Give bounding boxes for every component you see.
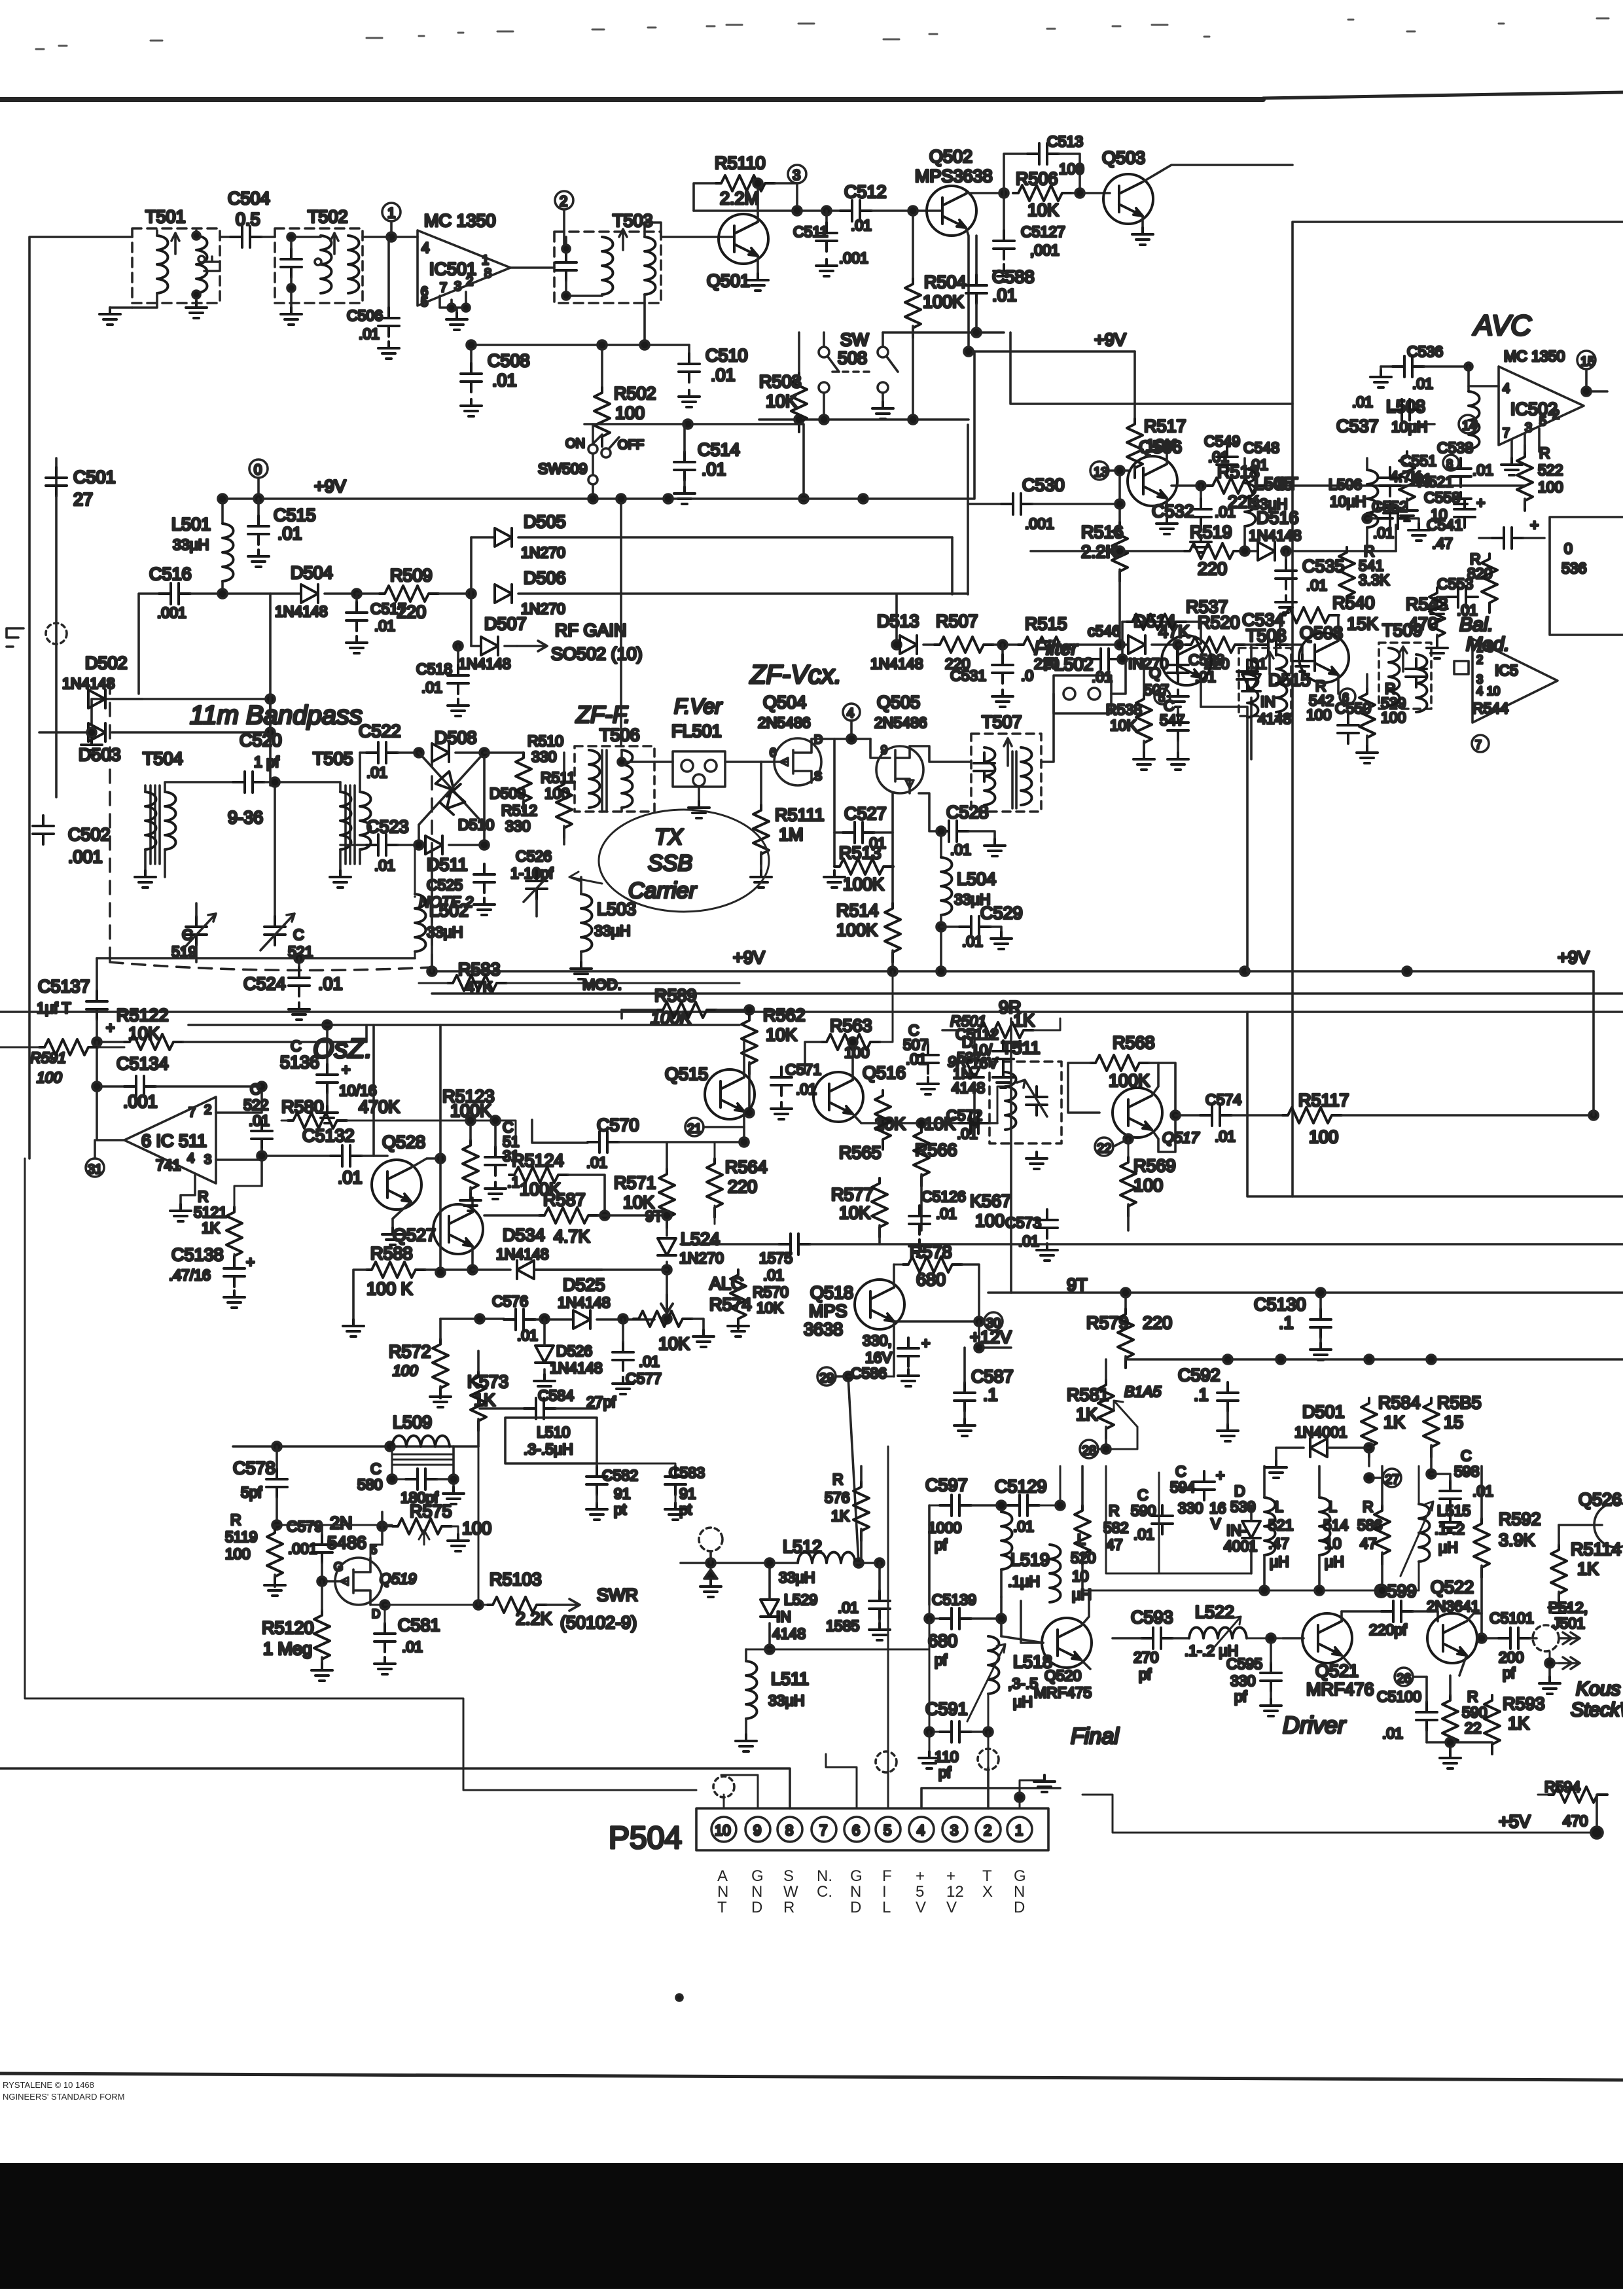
svg-text:.01: .01 — [402, 1638, 423, 1655]
scan specks top — [36, 18, 1609, 49]
svg-text:100: 100 — [1306, 706, 1331, 723]
svg-text:10: 10 — [1431, 506, 1448, 523]
svg-text:C592: C592 — [1178, 1365, 1221, 1385]
inductor L502 — [414, 845, 416, 897]
svg-text:T502: T502 — [308, 207, 348, 226]
svg-text:C514: C514 — [698, 440, 740, 459]
svg-text:2: 2 — [204, 1103, 211, 1117]
svg-text:C571: C571 — [785, 1061, 821, 1078]
svg-text:.47/16: .47/16 — [169, 1266, 211, 1283]
svg-text:.01: .01 — [936, 1205, 957, 1222]
svg-text:C531: C531 — [950, 667, 986, 684]
svg-text:4: 4 — [847, 706, 854, 721]
svg-text:R5122: R5122 — [116, 1005, 169, 1025]
svg-text:10K: 10K — [766, 391, 797, 411]
svg-text:SO502 (10): SO502 (10) — [551, 644, 643, 664]
svg-text:pf: pf — [935, 1651, 948, 1668]
svg-text:T507: T507 — [982, 712, 1022, 732]
capacitor C504 — [220, 236, 230, 238]
svg-text:Q504: Q504 — [763, 692, 806, 712]
transistor Q506 — [1090, 461, 1109, 480]
svg-text:C5129: C5129 — [995, 1477, 1047, 1496]
svg-text:1: 1 — [482, 253, 489, 268]
diode D506 — [495, 584, 512, 603]
svg-text:10K: 10K — [839, 1203, 870, 1223]
ground IC501 — [446, 313, 467, 330]
svg-text:N: N — [1014, 1883, 1025, 1901]
svg-text:C535: C535 — [1302, 556, 1345, 576]
svg-text:5: 5 — [883, 1822, 891, 1839]
wire C516 row — [139, 594, 159, 694]
svg-text:220: 220 — [1143, 1313, 1172, 1333]
svg-text:33μH: 33μH — [594, 922, 630, 939]
svg-text:.01: .01 — [277, 524, 302, 543]
svg-text:10μH: 10μH — [1330, 493, 1366, 510]
svg-text:.01: .01 — [1472, 1482, 1493, 1499]
svg-text:10K: 10K — [1027, 200, 1059, 220]
svg-text:+: + — [1016, 1036, 1024, 1053]
svg-text:C587: C587 — [971, 1367, 1014, 1386]
svg-text:R580: R580 — [281, 1097, 324, 1117]
left border wires — [25, 1158, 463, 1698]
wire C5134 to pin2 — [216, 1086, 262, 1113]
svg-text:.01: .01 — [957, 1125, 978, 1142]
svg-text:R502: R502 — [614, 384, 656, 403]
svg-text:C597: C597 — [925, 1475, 968, 1495]
node 6 — [1340, 689, 1355, 704]
svg-text:14: 14 — [1462, 419, 1476, 433]
svg-text:4: 4 — [421, 240, 429, 256]
svg-text:MPS3638: MPS3638 — [915, 166, 993, 186]
svg-text:27: 27 — [1385, 1473, 1399, 1487]
inductor L508 — [1465, 363, 1472, 370]
svg-text:5136: 5136 — [280, 1052, 319, 1072]
svg-text:D502: D502 — [85, 653, 128, 673]
svg-text:C501: C501 — [73, 467, 116, 487]
op-amp IC511 — [124, 1097, 216, 1183]
resistor R522 — [1517, 452, 1533, 511]
svg-text:A: A — [717, 1867, 728, 1885]
capacitor C510 — [688, 345, 690, 353]
diode D504 — [301, 584, 318, 603]
capacitor C524 — [298, 958, 300, 967]
capacitor C533 — [1173, 640, 1183, 649]
svg-text:330,: 330, — [863, 1332, 892, 1349]
long verticals mid page — [1247, 716, 1623, 1196]
inductor L503 — [581, 894, 592, 952]
svg-text:R5103: R5103 — [490, 1570, 542, 1589]
svg-text:31: 31 — [88, 1162, 102, 1177]
svg-text:8: 8 — [484, 266, 491, 281]
svg-text:3: 3 — [204, 1153, 211, 1167]
svg-text:27: 27 — [73, 490, 93, 509]
node 30 — [894, 1320, 984, 1323]
svg-text:D501: D501 — [1302, 1402, 1345, 1422]
svg-text:1N4148: 1N4148 — [1249, 527, 1302, 544]
svg-text:μH: μH — [1438, 1539, 1458, 1556]
op-amp IC502 — [1469, 348, 1584, 458]
svg-text:.01: .01 — [517, 1327, 538, 1344]
svg-text:.01: .01 — [992, 285, 1017, 305]
svg-text:SWR: SWR — [597, 1585, 638, 1605]
node 5 — [1154, 689, 1170, 704]
svg-text:3: 3 — [950, 1822, 958, 1839]
svg-text:SSB: SSB — [648, 851, 692, 876]
svg-text:R584: R584 — [1378, 1393, 1421, 1412]
svg-text:10K: 10K — [658, 1334, 690, 1354]
svg-text:c546: c546 — [1088, 622, 1120, 639]
svg-text:28: 28 — [1082, 1444, 1096, 1458]
svg-text:D504: D504 — [291, 563, 333, 583]
svg-text:C5112: C5112 — [955, 1026, 999, 1043]
svg-text:C.: C. — [817, 1883, 832, 1901]
svg-text:1 Meg: 1 Meg — [263, 1639, 312, 1659]
wire y1464 — [97, 957, 415, 960]
svg-text:S: S — [814, 770, 822, 783]
pin 7 — [811, 1817, 836, 1842]
svg-text:Q517: Q517 — [1162, 1129, 1200, 1146]
svg-text:+: + — [916, 1867, 925, 1885]
svg-text:R564: R564 — [725, 1157, 768, 1177]
svg-text:5119: 5119 — [225, 1528, 257, 1545]
svg-text:9R: 9R — [948, 1053, 967, 1070]
capacitor C527 — [834, 739, 843, 833]
svg-text:4: 4 — [1503, 382, 1510, 396]
+9V bus — [223, 351, 974, 499]
capacitor C534 — [1257, 634, 1288, 655]
diode D516 — [1258, 542, 1275, 560]
svg-text:+9V: +9V — [1094, 330, 1126, 350]
svg-text:100: 100 — [225, 1545, 250, 1562]
svg-text:L508: L508 — [1386, 397, 1425, 416]
svg-text:.001: .001 — [288, 1540, 317, 1557]
svg-text:508: 508 — [838, 348, 867, 368]
ground IC502 pin — [1501, 458, 1522, 475]
svg-text:C5134: C5134 — [116, 1054, 169, 1073]
svg-text:C530: C530 — [1022, 475, 1065, 495]
svg-text:B1A5: B1A5 — [1124, 1383, 1161, 1400]
svg-text:C522: C522 — [359, 721, 401, 741]
svg-text:R5114: R5114 — [1571, 1539, 1622, 1559]
svg-text:8: 8 — [785, 1822, 793, 1839]
svg-text:TX: TX — [654, 825, 684, 850]
svg-text:R565: R565 — [839, 1143, 882, 1162]
svg-text:C526: C526 — [516, 848, 552, 865]
svg-text:R592: R592 — [1499, 1509, 1541, 1529]
vertical right of D505 — [951, 537, 954, 594]
resistor R509 — [357, 592, 380, 595]
svg-text:22: 22 — [1465, 1719, 1482, 1736]
resistor R502 — [601, 345, 603, 387]
svg-text:1N4148: 1N4148 — [496, 1246, 549, 1263]
svg-text:1N270: 1N270 — [521, 600, 565, 617]
resistor R516 — [1118, 471, 1121, 522]
svg-text:10K: 10K — [757, 1299, 784, 1316]
svg-text:100: 100 — [1309, 1127, 1338, 1147]
op-amp IC501 — [418, 211, 510, 313]
svg-text:R503: R503 — [759, 372, 802, 391]
svg-text:.01: .01 — [702, 459, 726, 479]
svg-text:D505: D505 — [524, 512, 566, 531]
svg-text:D: D — [751, 1899, 762, 1916]
svg-text:C5126: C5126 — [921, 1188, 966, 1205]
svg-text:1μf T: 1μf T — [37, 999, 71, 1016]
svg-text:L509: L509 — [393, 1412, 432, 1432]
svg-text:C5132: C5132 — [302, 1126, 355, 1145]
svg-text:.01: .01 — [1215, 503, 1236, 520]
svg-text:16: 16 — [1209, 1499, 1226, 1516]
svg-text:Q506: Q506 — [1139, 437, 1182, 457]
svg-text:pf: pf — [938, 1764, 952, 1781]
svg-text:4148: 4148 — [952, 1079, 985, 1096]
svg-text:.001: .001 — [68, 847, 103, 867]
svg-text:R5B5: R5B5 — [1437, 1393, 1482, 1412]
svg-text:.01: .01 — [1306, 577, 1327, 594]
svg-text:C: C — [1175, 1463, 1186, 1480]
svg-text:11m Bandpass: 11m Bandpass — [190, 701, 363, 730]
svg-text:+: + — [246, 1253, 255, 1270]
capacitor C513 — [1004, 154, 1027, 193]
svg-text:330: 330 — [531, 748, 556, 765]
ground D503 — [81, 738, 102, 755]
node 8 — [1443, 455, 1459, 471]
svg-text:.1: .1 — [507, 1174, 520, 1191]
bias bus y2077 — [1126, 1358, 1623, 1361]
svg-text:Q526: Q526 — [1578, 1490, 1622, 1509]
pin 4 — [909, 1817, 934, 1842]
svg-text:Q502: Q502 — [929, 147, 972, 166]
svg-text:R544: R544 — [1472, 700, 1508, 717]
svg-text:RF GAIN: RF GAIN — [555, 620, 627, 640]
svg-text:270: 270 — [1133, 1649, 1158, 1666]
svg-text:.01: .01 — [338, 1168, 363, 1187]
svg-text:R513: R513 — [839, 843, 882, 863]
svg-text:1: 1 — [1015, 1822, 1023, 1839]
svg-text:C550: C550 — [1335, 700, 1371, 717]
node 4 — [843, 704, 860, 721]
svg-text:1N4148: 1N4148 — [870, 655, 923, 672]
svg-text:IC5: IC5 — [1495, 662, 1518, 679]
svg-text:D508: D508 — [435, 728, 477, 747]
svg-text:C511: C511 — [793, 223, 828, 240]
ground T502 — [281, 308, 302, 325]
svg-text:33μH: 33μH — [768, 1692, 804, 1709]
resistor R520 — [1178, 643, 1186, 646]
svg-text:R574: R574 — [709, 1295, 752, 1314]
svg-text:8: 8 — [1446, 457, 1453, 471]
svg-text:R507: R507 — [936, 611, 978, 631]
svg-text:6 IC 511: 6 IC 511 — [141, 1131, 207, 1151]
node 2 — [555, 191, 573, 209]
bottom rule line — [0, 2073, 1623, 2080]
row D513 — [897, 594, 900, 645]
capacitor C515 — [257, 499, 260, 516]
row R519/D516 — [1031, 550, 1185, 552]
wire T502 to IC501 — [363, 236, 418, 238]
svg-text:.01: .01 — [374, 857, 395, 874]
capacitor C519 variable — [186, 916, 207, 945]
svg-text:MPS: MPS — [809, 1301, 847, 1321]
svg-text:100K: 100K — [836, 920, 878, 940]
wire 1566 — [188, 1024, 740, 1026]
svg-text:N: N — [751, 1883, 762, 1901]
svg-text:R: R — [1109, 1502, 1120, 1519]
svg-text:I: I — [882, 1883, 887, 1901]
svg-text:+5V: +5V — [1499, 1812, 1531, 1831]
svg-text:V: V — [916, 1899, 926, 1916]
svg-text:R589: R589 — [654, 986, 697, 1005]
svg-text:R572: R572 — [389, 1342, 431, 1361]
svg-text:.01: .01 — [249, 1112, 270, 1129]
svg-text:pf: pf — [1234, 1688, 1247, 1705]
svg-text:.0: .0 — [1021, 667, 1033, 684]
capacitor C517 — [352, 589, 361, 598]
svg-text:220: 220 — [1198, 559, 1227, 579]
svg-text:MC 1350: MC 1350 — [1504, 348, 1565, 365]
svg-text:15K: 15K — [1347, 614, 1378, 634]
svg-text:R571: R571 — [614, 1173, 656, 1193]
svg-text:.01: .01 — [1412, 375, 1433, 392]
svg-text:MRF475: MRF475 — [1034, 1684, 1092, 1701]
svg-text:+: + — [1216, 1467, 1224, 1484]
svg-text:T: T — [982, 1867, 992, 1885]
svg-text:R510: R510 — [527, 732, 563, 749]
svg-text:C595: C595 — [1226, 1655, 1262, 1672]
svg-text:C5130: C5130 — [1254, 1295, 1306, 1314]
svg-text:0: 0 — [254, 461, 262, 478]
svg-text:T505: T505 — [313, 749, 353, 768]
svg-text:C513: C513 — [1047, 133, 1083, 150]
resistor R503 — [798, 332, 800, 373]
pin 8 — [777, 1817, 802, 1842]
svg-text:L522: L522 — [1195, 1602, 1234, 1622]
svg-text:100: 100 — [1059, 160, 1084, 177]
svg-text:R569: R569 — [1133, 1156, 1176, 1175]
capacitor C535 — [1281, 547, 1291, 556]
ground IC511 — [181, 1174, 195, 1204]
wire down from R5103 junction — [478, 1446, 479, 1605]
node 28 — [1080, 1440, 1098, 1458]
svg-text:4.7K: 4.7K — [554, 1227, 590, 1246]
svg-text:C549: C549 — [1204, 433, 1240, 450]
wires PA row — [1110, 1638, 1113, 1639]
svg-text:Q527: Q527 — [393, 1225, 436, 1245]
capacitor C518 — [454, 641, 463, 651]
bottom-left fine print — [3, 2080, 124, 2102]
junction — [467, 589, 476, 598]
svg-text:47: 47 — [1106, 1536, 1123, 1553]
svg-text:,3-.5: ,3-.5 — [1008, 1675, 1038, 1692]
svg-text:2: 2 — [466, 274, 473, 289]
wire T503 to Q501 — [645, 223, 734, 237]
svg-text:D: D — [1014, 1899, 1025, 1916]
svg-text:R540: R540 — [1332, 593, 1375, 613]
RF GAIN arrow — [517, 641, 547, 651]
svg-text:C5127: C5127 — [1021, 223, 1065, 240]
svg-text:L504: L504 — [957, 869, 996, 889]
svg-text:R: R — [1363, 1498, 1374, 1515]
svg-text:F: F — [882, 1867, 892, 1885]
svg-text:C5100: C5100 — [1377, 1688, 1421, 1705]
svg-text:110: 110 — [935, 1748, 959, 1765]
node 14 — [1459, 415, 1477, 433]
svg-text:576: 576 — [825, 1489, 849, 1506]
svg-text:4148: 4148 — [1258, 710, 1291, 727]
svg-text:μH: μH — [1072, 1586, 1092, 1603]
svg-text:D510: D510 — [458, 816, 494, 833]
svg-text:R563: R563 — [830, 1016, 872, 1035]
svg-text:.1: .1 — [1194, 1385, 1209, 1405]
capacitor C512 — [840, 200, 872, 221]
svg-text:12: 12 — [946, 1883, 964, 1901]
resistor R5111 — [760, 762, 762, 805]
svg-text:7: 7 — [188, 1105, 196, 1120]
svg-text:10: 10 — [1487, 685, 1500, 698]
svg-text:+9V: +9V — [1558, 948, 1590, 967]
svg-text:+: + — [1530, 516, 1539, 533]
node 31 — [86, 1158, 104, 1177]
svg-text:L524: L524 — [681, 1229, 720, 1249]
svg-text:.001: .001 — [1025, 515, 1054, 532]
svg-text:Q519: Q519 — [380, 1570, 416, 1587]
svg-text:100: 100 — [1133, 1175, 1163, 1195]
svg-text:R: R — [832, 1471, 844, 1488]
svg-text:7: 7 — [440, 281, 447, 295]
svg-text:1N4148: 1N4148 — [550, 1359, 603, 1376]
svg-text:4148: 4148 — [772, 1625, 806, 1642]
svg-text:1575: 1575 — [759, 1249, 793, 1266]
inductor L506 — [1367, 470, 1378, 528]
svg-text:C581: C581 — [398, 1615, 440, 1635]
right border box — [1293, 222, 1623, 1196]
svg-text:C518: C518 — [416, 660, 452, 677]
svg-text:R5111: R5111 — [775, 805, 825, 825]
svg-text:100K: 100K — [923, 292, 964, 312]
wire into IC511 — [97, 1086, 124, 1140]
svg-text:R: R — [783, 1899, 794, 1916]
svg-text:33μH: 33μH — [779, 1569, 815, 1586]
svg-text:T506: T506 — [599, 725, 640, 745]
svg-text:C510: C510 — [705, 346, 748, 365]
svg-text:C591: C591 — [925, 1699, 968, 1719]
svg-text:SW: SW — [840, 330, 869, 350]
resistor R514 — [891, 867, 894, 903]
svg-text:2: 2 — [1552, 408, 1560, 422]
svg-text:3.3K: 3.3K — [1359, 571, 1390, 588]
svg-text:330: 330 — [1178, 1499, 1203, 1516]
resistor R5110 — [694, 183, 716, 211]
svg-text:C576: C576 — [492, 1293, 528, 1310]
svg-text:.01: .01 — [763, 1266, 784, 1283]
ground PA — [1427, 1742, 1492, 1751]
handwriting TX SSB Carrier — [599, 810, 769, 912]
pin 9 — [745, 1817, 770, 1842]
svg-text:Q503: Q503 — [1102, 148, 1145, 168]
svg-text:200: 200 — [1499, 1649, 1524, 1666]
svg-text:R514: R514 — [836, 901, 879, 920]
transistor Q502 — [927, 186, 976, 236]
svg-text:7: 7 — [1475, 738, 1482, 751]
svg-text:6: 6 — [770, 746, 776, 759]
svg-text:NGINEERS' STANDARD FORM: NGINEERS' STANDARD FORM — [3, 2092, 124, 2102]
svg-text:+: + — [1476, 494, 1485, 511]
resistor R504 — [912, 211, 914, 279]
svg-text:220: 220 — [728, 1177, 757, 1196]
stray dot — [676, 1994, 683, 2001]
ground T501 right — [186, 301, 207, 318]
svg-text:.01: .01 — [1382, 1725, 1403, 1742]
svg-text:.01: .01 — [639, 1353, 660, 1370]
